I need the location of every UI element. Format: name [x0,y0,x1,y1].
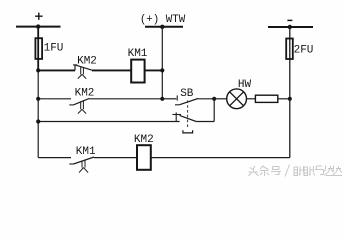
svg-text:KM2: KM2 [75,88,95,100]
svg-text:2FU: 2FU [294,44,314,56]
svg-text:KM2: KM2 [77,56,97,68]
svg-text:KM1: KM1 [128,48,148,60]
svg-text:(+) WTW: (+) WTW [140,14,186,26]
svg-text:SB: SB [180,88,194,100]
svg-text:1FU: 1FU [44,43,64,55]
svg-text:KM1: KM1 [76,146,96,158]
